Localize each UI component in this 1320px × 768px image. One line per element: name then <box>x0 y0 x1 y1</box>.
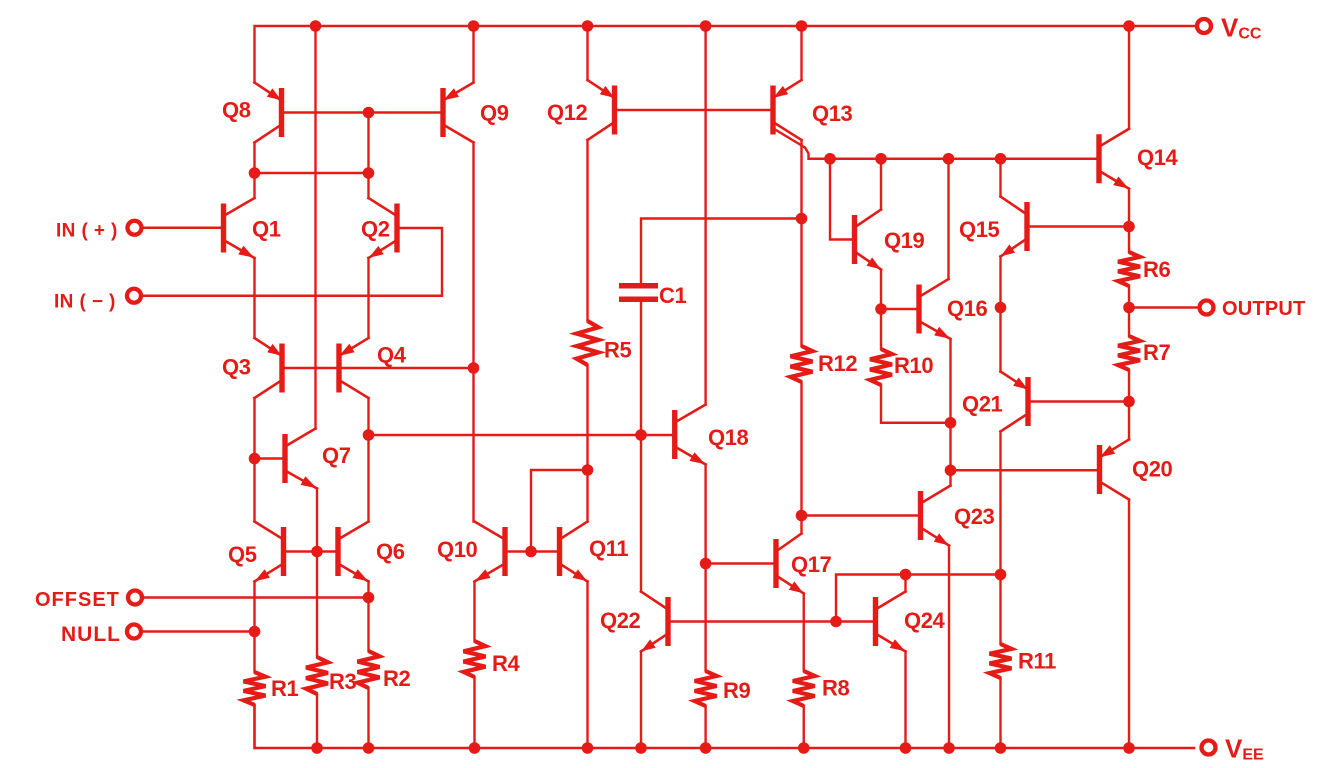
transistor Q23 <box>918 486 951 546</box>
transistor Q22 <box>641 592 671 652</box>
junction Q17 base node <box>700 558 712 570</box>
transistor Q19 <box>852 210 881 270</box>
svg-text:R2: R2 <box>383 666 410 691</box>
resistor R9 <box>695 671 717 706</box>
resistor R8 <box>793 671 815 706</box>
wire Q17 base <box>706 562 773 564</box>
wire node C to Q22 collector <box>640 435 642 592</box>
svg-text:Q17: Q17 <box>791 552 832 577</box>
resistor R3 <box>306 657 328 694</box>
svg-text:Q24: Q24 <box>904 608 946 633</box>
svg-text:R12: R12 <box>818 351 857 376</box>
terminal VCC <box>1197 19 1211 33</box>
wire Q7 emitter to R3 <box>316 489 318 658</box>
resistor R4 <box>464 641 486 677</box>
wire Q21 base to R7 node <box>1031 400 1129 402</box>
wire Q17 emitter to R8 <box>803 594 805 672</box>
junction VCC-Q18 node <box>700 20 712 32</box>
wire node C to Q6 collector <box>367 435 369 522</box>
wire R8 to VEE <box>803 706 805 748</box>
wire Q15 collector up <box>999 159 1001 197</box>
transistor Q18 <box>672 405 706 465</box>
junction Q24 base node <box>830 616 842 628</box>
wire NULL to Q5 emitter <box>141 630 255 632</box>
wire R9 to VEE <box>704 706 706 748</box>
junction OFFSET node <box>363 592 375 604</box>
transistor Q8 <box>255 83 285 143</box>
resistor R10 <box>870 349 892 385</box>
transistor Q3 <box>255 338 285 398</box>
wire Q24 collector up <box>904 575 906 592</box>
wire Q20 to VEE <box>1128 500 1130 749</box>
wire Q18 emitter to R9 <box>704 465 706 672</box>
svg-text:R5: R5 <box>604 338 631 363</box>
wire IN(-) to Q2 base <box>141 228 442 296</box>
svg-text:R7: R7 <box>1143 340 1170 365</box>
wire OFFSET to Q6 emitter <box>143 596 369 598</box>
junction Q19 base node <box>824 153 836 165</box>
svg-text:Q22: Q22 <box>600 608 641 633</box>
junction VCC-Q14 node <box>1123 20 1135 32</box>
svg-text:Q10: Q10 <box>437 537 478 562</box>
capacitor C1 <box>619 283 658 302</box>
svg-text:Q20: Q20 <box>1132 457 1173 482</box>
junction R10 node <box>945 417 957 429</box>
transistor Q20 <box>1097 440 1129 500</box>
wire Q6 emitter to R2 <box>367 582 369 652</box>
svg-text:Q2: Q2 <box>361 217 390 242</box>
svg-text:Q19: Q19 <box>884 228 925 253</box>
svg-text:R8: R8 <box>822 676 849 701</box>
transistor Q15 <box>1001 197 1030 257</box>
svg-text:Q11: Q11 <box>589 536 628 561</box>
wire Q13 second collector to Q14 base <box>775 130 1097 159</box>
junction Q16 base node <box>875 303 887 315</box>
wire Q22 emitter to VEE <box>640 652 642 749</box>
wire Q3-Q4 base <box>285 367 474 369</box>
resistor R5 <box>577 321 599 365</box>
wire R12 to Q17 collector <box>800 382 802 534</box>
wire Q19 collector up <box>880 159 882 210</box>
wire VCC to Q18 collector <box>704 26 706 405</box>
transistor Q6 <box>335 522 368 582</box>
junction VEE-Q24 <box>900 742 912 754</box>
wire Q14 emitter to R6 <box>1128 189 1130 252</box>
junction VEE-R3 <box>311 742 323 754</box>
wire R2 to VEE <box>367 688 369 748</box>
svg-text:VEE: VEE <box>1225 734 1264 764</box>
junction Q11 collector node <box>582 464 594 476</box>
wire IN(+) to Q1 base <box>142 227 221 229</box>
junction Q18 base node <box>635 429 647 441</box>
wire Q15 base to R6 node <box>1030 225 1129 227</box>
wire R5 to Q11 collector <box>586 365 588 522</box>
svg-text:Q9: Q9 <box>480 101 509 126</box>
wire Q12 emitter to VCC <box>586 26 588 80</box>
resistor R1 <box>244 672 266 705</box>
svg-text:Q5: Q5 <box>228 542 257 567</box>
wire VCC to Q7 collector <box>314 26 316 429</box>
wire R6 to R7 <box>1128 286 1130 336</box>
junction output-Q15 node <box>995 302 1007 314</box>
junction VCC-Q13 node <box>796 20 808 32</box>
transistor Q1 <box>221 198 255 258</box>
junction Q24 collector node <box>900 569 912 581</box>
svg-text:Q3: Q3 <box>222 355 251 380</box>
wire Q13 emitter to VCC <box>800 26 802 80</box>
wire Q12-Q13 base <box>618 109 771 111</box>
terminal IN(-) <box>127 289 141 303</box>
junction node A <box>249 167 261 179</box>
transistor Q21 <box>1001 372 1031 432</box>
wire R1 to VEE <box>253 705 255 748</box>
junction VCC-Q7 node <box>310 20 322 32</box>
transistor Q2 <box>369 198 400 258</box>
wire Q10-Q11 base <box>508 550 557 552</box>
junction VEE-R2 <box>363 742 375 754</box>
svg-text:VCC: VCC <box>1221 13 1262 43</box>
wire Q11 base-collector loop <box>531 470 588 552</box>
svg-text:OFFSET: OFFSET <box>35 589 120 611</box>
wire Q3 collector to Q5 collector <box>253 398 255 522</box>
svg-text:IN ( + ): IN ( + ) <box>56 221 118 242</box>
wire VEE rail <box>255 705 1195 748</box>
wire Q5-Q6 base <box>287 550 336 552</box>
wire Q19 emitter to R10 <box>880 270 882 350</box>
terminal OFFSET <box>128 591 142 605</box>
junction VEE-Q23 <box>943 742 955 754</box>
wire C1 top to Q13 collector node <box>641 219 802 286</box>
wire Q2 emitter to Q4 emitter <box>367 258 369 338</box>
svg-text:Q14: Q14 <box>1137 145 1179 170</box>
svg-text:R4: R4 <box>492 651 520 676</box>
junction VCC-Q12 node <box>582 20 594 32</box>
wire Q16 base <box>881 308 916 310</box>
svg-text:Q23: Q23 <box>954 504 995 529</box>
svg-text:Q4: Q4 <box>377 343 407 368</box>
wire Q23 base <box>802 514 919 516</box>
transistor Q5 <box>255 522 287 582</box>
junction output-R6 node <box>1123 302 1135 314</box>
transistor Q12 <box>588 80 618 140</box>
wire Q9 emitter to VCC <box>472 26 474 83</box>
resistor R12 <box>791 346 813 382</box>
wire Q23 collector node to Q20 base <box>951 469 1097 471</box>
wire node C to Q18 base <box>369 434 672 436</box>
junction VEE-R11 <box>995 742 1007 754</box>
svg-text:R3: R3 <box>329 669 356 694</box>
svg-text:Q16: Q16 <box>947 296 988 321</box>
wire Q14 collector to VCC <box>1128 26 1130 129</box>
wire Q15 emitter to output and Q21 emitter <box>999 257 1001 372</box>
wire Q24 base to R11 node <box>836 575 1001 622</box>
wire Q1 emitter to Q3 emitter <box>253 258 255 338</box>
wire node A to node B <box>255 172 369 174</box>
wire Q24 emitter to VEE <box>904 652 906 749</box>
resistor R7 <box>1118 336 1140 370</box>
wire Q16 emitter to Q23 collector <box>949 339 951 486</box>
wire node B vertical <box>367 113 369 199</box>
svg-text:R1: R1 <box>271 676 298 701</box>
transistor Q11 <box>557 522 588 582</box>
junction node C <box>363 429 375 441</box>
transistor Q4 <box>336 338 368 398</box>
transistor Q16 <box>916 279 950 339</box>
transistor Q10 <box>475 522 508 582</box>
wire C1 bottom to node C <box>640 299 642 435</box>
wire Q19 base <box>830 159 852 240</box>
svg-text:IN ( − ): IN ( − ) <box>54 292 116 313</box>
junction Q20 base node <box>945 464 957 476</box>
resistor R6 <box>1118 252 1140 286</box>
wire Q8-Q9 base <box>285 111 441 113</box>
svg-text:Q6: Q6 <box>376 539 405 564</box>
terminal IN(+) <box>128 221 142 235</box>
junction Q15 collector node <box>995 153 1007 165</box>
svg-text:Q8: Q8 <box>222 98 251 123</box>
junction R11 top node <box>995 569 1007 581</box>
svg-text:Q21: Q21 <box>962 392 1003 417</box>
junction Q15 base node <box>1123 221 1135 233</box>
wire Q7 base <box>255 457 283 459</box>
svg-text:OUTPUT: OUTPUT <box>1222 298 1305 320</box>
junction VEE-Q20 <box>1123 742 1135 754</box>
junction NULL node <box>249 626 261 638</box>
resistor R11 <box>990 644 1012 678</box>
svg-text:NULL: NULL <box>61 623 121 646</box>
svg-text:R11: R11 <box>1018 649 1056 674</box>
junction node B <box>363 167 375 179</box>
wire Q11 emitter to VEE <box>586 582 588 749</box>
wire R4 to VEE <box>473 677 475 748</box>
wire R3 to VEE <box>316 694 318 748</box>
svg-text:Q7: Q7 <box>322 443 351 468</box>
junction Q16 collector node <box>943 153 955 165</box>
wire R10 to Q16 emitter node <box>881 385 951 423</box>
wire Q23 emitter to VEE <box>948 546 950 749</box>
junction C1-R12 node <box>796 213 808 225</box>
terminal OUTPUT <box>1200 301 1214 315</box>
junction VEE-R4 <box>469 742 481 754</box>
svg-text:C1: C1 <box>659 283 686 308</box>
wire Q16 collector up <box>947 159 949 279</box>
junction Q7 base node <box>249 453 261 465</box>
wire R11 to VEE <box>999 678 1001 748</box>
junction Q21 base node <box>1123 396 1135 408</box>
junction Q23 base node <box>796 510 808 522</box>
wire Q22-Q24 base <box>671 620 873 622</box>
svg-text:Q12: Q12 <box>547 100 588 125</box>
svg-text:Q1: Q1 <box>252 217 281 242</box>
junction VEE-Q22 <box>635 742 647 754</box>
svg-text:Q13: Q13 <box>812 101 853 126</box>
transistor Q7 <box>282 429 317 489</box>
svg-text:Q18: Q18 <box>708 425 749 450</box>
junction VEE-R9 <box>700 742 712 754</box>
wire VCC rail <box>255 26 1198 83</box>
junction Q19 collector node <box>875 153 887 165</box>
transistor Q9 <box>440 83 473 143</box>
svg-text:R9: R9 <box>723 678 750 703</box>
svg-text:Q15: Q15 <box>959 217 1000 242</box>
wire R7 to Q20 collector <box>1128 370 1130 440</box>
terminal NULL <box>127 625 141 639</box>
wire Q13 collector to R12 <box>800 140 802 346</box>
junction VEE-Q11 <box>582 742 594 754</box>
junction VEE-R8 <box>798 742 810 754</box>
wire output <box>1129 306 1199 308</box>
wire Q21 collector to R11 <box>999 432 1001 645</box>
junction Q3-Q4 base node <box>468 362 480 374</box>
transistor Q24 <box>873 592 906 652</box>
wire Q9 collector to Q10 collector <box>472 143 474 522</box>
junction Q5-Q6 base node <box>311 546 323 558</box>
svg-text:R6: R6 <box>1143 257 1170 282</box>
svg-text:R10: R10 <box>894 353 933 378</box>
junction VCC-Q9 node <box>468 20 480 32</box>
terminal VEE <box>1202 741 1216 755</box>
wire Q5 emitter to R1 <box>253 582 255 673</box>
wire Q4 collector down <box>367 398 369 435</box>
resistor R2 <box>358 651 380 688</box>
wire Q12 collector to R5 <box>586 140 588 321</box>
wire Q8 collector to node A <box>253 143 255 199</box>
junction Q8 base node <box>363 107 375 119</box>
transistor Q13 <box>770 80 801 140</box>
transistor Q14 <box>1096 129 1129 189</box>
junction Q10 base node <box>525 546 537 558</box>
wire Q10 emitter to R4 <box>473 582 475 642</box>
transistor Q17 <box>773 534 803 594</box>
